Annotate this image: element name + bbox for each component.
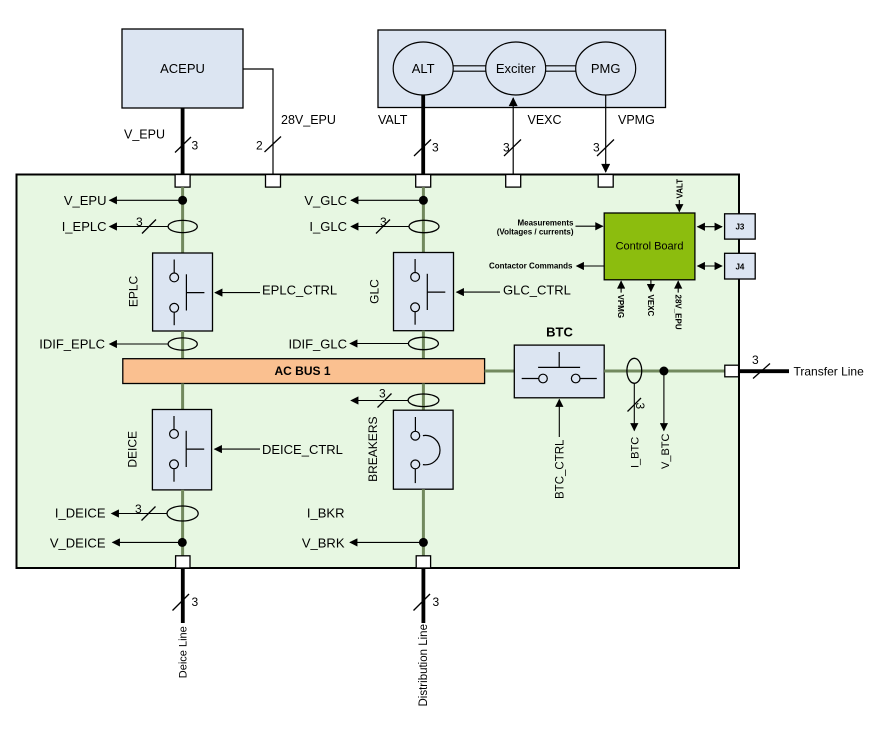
connector square Distribution Line (bottom border) — [416, 556, 430, 568]
svg-text:Distribution Line: Distribution Line — [418, 624, 430, 706]
svg-text:V_BRK: V_BRK — [302, 535, 345, 550]
node dot V_BRK — [419, 538, 428, 547]
arrow IDIF_GLC measurement — [350, 343, 409, 345]
current transformer on breaker line — [408, 394, 439, 407]
arrow BTC_CTRL command — [558, 400, 560, 438]
svg-text:(Voltages / currents): (Voltages / currents) — [497, 228, 574, 237]
wire VPMG with arrow down to panel — [605, 95, 607, 172]
svg-text:BTC: BTC — [546, 324, 573, 339]
svg-text:J3: J3 — [735, 223, 744, 232]
current transformer IDIF_GLC — [408, 337, 438, 349]
node dot V_GLC — [419, 196, 428, 205]
arrow I_BKR measurement with 3-phase slash — [351, 387, 408, 408]
connector J4 — [725, 253, 756, 279]
wire GLC to bus — [422, 331, 425, 359]
slash 3-phase on VALT feeder — [414, 140, 439, 157]
connector square Transfer Line (right border) — [725, 365, 739, 377]
svg-text:I_EPLC: I_EPLC — [62, 219, 107, 234]
wire V_EPU feeder (thick) — [181, 108, 185, 175]
svg-text:VPMG: VPMG — [616, 295, 625, 319]
svg-text:BTC_CTRL: BTC_CTRL — [555, 439, 567, 499]
contactor DEICE — [152, 410, 211, 490]
svg-text:BREAKERS: BREAKERS — [366, 417, 380, 482]
connector square Deice Line (bottom border) — [176, 556, 190, 568]
svg-text:28V_EPU: 28V_EPU — [281, 113, 336, 127]
shaft coupling Exciter-PMG (double line) — [546, 66, 576, 71]
node dot V_BTC — [659, 367, 668, 376]
svg-text:V_DEICE: V_DEICE — [50, 535, 106, 550]
label Measurements (Voltages / currents) — [497, 218, 574, 236]
svg-text:28V_EPU: 28V_EPU — [673, 295, 682, 330]
svg-text:VPMG: VPMG — [618, 113, 655, 127]
svg-text:GLC_CTRL: GLC_CTRL — [503, 283, 571, 298]
svg-text:Control Board: Control Board — [616, 241, 684, 253]
svg-text:ALT: ALT — [412, 61, 435, 76]
svg-text:EPLC_CTRL: EPLC_CTRL — [262, 283, 337, 298]
wire Distribution Line feeder (thick) with 3-phase slash — [414, 568, 440, 623]
arrow I_GLC measurement with 3-phase slash — [351, 215, 409, 234]
current transformer I_EPLC — [168, 220, 197, 232]
svg-text:3: 3 — [752, 353, 759, 367]
current transformer I_BTC (vertical) — [627, 358, 642, 383]
svg-text:J4: J4 — [735, 263, 744, 272]
arrow V_BRK measurement — [350, 541, 423, 543]
arrow Control Board to J3 (double headed) — [698, 226, 723, 228]
arrow V_GLC measurement — [351, 199, 423, 201]
connector square VALT (top border) — [416, 175, 431, 188]
svg-text:VEXC: VEXC — [528, 113, 562, 127]
node dot V_DEICE — [178, 538, 187, 547]
wire BREAKERS column from bus — [422, 384, 425, 411]
arrow I_DEICE measurement with 3-phase slash — [112, 502, 168, 521]
wire EPLC column upper segment — [181, 187, 184, 253]
machine Exciter — [486, 42, 546, 95]
arrow VEXC out of control board bottom — [650, 280, 652, 291]
slash 3-phase on V_EPU feeder — [175, 137, 199, 153]
contactor EPLC — [153, 253, 213, 331]
connector square VEXC (top border) — [506, 175, 521, 188]
svg-text:VEXC: VEXC — [646, 295, 655, 317]
svg-text:Measurements: Measurements — [517, 218, 574, 227]
block ACEPU — [122, 29, 243, 108]
block Control Board — [604, 213, 695, 280]
slash 2-phase on 28V_EPU wire — [256, 137, 281, 153]
svg-text:ACEPU: ACEPU — [160, 61, 205, 76]
wire DEICE column from bus — [181, 384, 184, 410]
connector J3 — [725, 214, 756, 239]
wire 28V_EPU from ACEPU to panel — [243, 69, 273, 175]
machine ALT — [393, 42, 453, 95]
arrow V_DEICE measurement — [113, 541, 183, 543]
wire BTC to transfer connector — [604, 370, 725, 373]
wire Transfer Line feeder (thick) with 3-phase slash — [740, 353, 790, 379]
wire VEXC with arrow up into Exciter — [512, 98, 514, 175]
current transformer I_DEICE — [167, 506, 198, 521]
wire EPLC to bus — [181, 331, 184, 359]
svg-text:3: 3 — [192, 139, 199, 153]
svg-text:I_GLC: I_GLC — [309, 219, 347, 234]
svg-text:3: 3 — [192, 595, 199, 609]
arrow I_BTC measurement with 3-phase slash — [628, 383, 648, 430]
bus bar AC BUS 1 — [123, 359, 485, 384]
arrow Measurements into control board — [576, 225, 603, 227]
svg-text:3: 3 — [379, 387, 386, 401]
arrow EPLC_CTRL command — [215, 292, 260, 294]
svg-text:DEICE_CTRL: DEICE_CTRL — [262, 442, 343, 457]
svg-text:3: 3 — [432, 141, 439, 155]
wire BREAKERS lower segment — [422, 489, 425, 556]
current transformer IDIF_EPLC — [168, 338, 197, 350]
svg-text:IDIF_GLC: IDIF_GLC — [288, 336, 347, 351]
svg-text:3: 3 — [433, 595, 440, 609]
arrow DEICE_CTRL command — [215, 448, 261, 450]
arrow V_BTC measurement — [663, 371, 665, 431]
svg-text:3: 3 — [633, 403, 647, 410]
svg-text:3: 3 — [136, 215, 143, 229]
panel main green enclosure — [17, 175, 740, 569]
node dot V_EPU — [178, 196, 187, 205]
svg-text:VALT: VALT — [378, 113, 408, 127]
svg-text:V_BTC: V_BTC — [660, 433, 672, 469]
svg-text:Contactor Commands: Contactor Commands — [489, 262, 573, 271]
slash 3-phase on VEXC wire — [503, 140, 521, 157]
arrow Contactor Commands out of control board — [577, 265, 605, 267]
machine PMG — [576, 42, 636, 95]
svg-text:3: 3 — [135, 502, 142, 516]
wire GLC column upper segment — [422, 187, 425, 252]
svg-text:AC BUS 1: AC BUS 1 — [274, 364, 330, 378]
shaft coupling ALT-Exciter (double line) — [453, 66, 486, 71]
wire VALT feeder (thick) — [421, 95, 425, 175]
block generator set (ALT/Exciter/PMG) — [378, 30, 666, 108]
wire DEICE lower segment — [181, 490, 184, 556]
svg-text:V_GLC: V_GLC — [304, 193, 347, 208]
arrow V_EPU measurement — [110, 199, 183, 201]
svg-text:Deice Line: Deice Line — [178, 626, 190, 678]
svg-text:Exciter: Exciter — [496, 61, 536, 76]
current transformer I_GLC — [409, 220, 439, 232]
svg-text:V_EPU: V_EPU — [124, 128, 165, 142]
connector square VPMG (top border) — [598, 175, 613, 188]
svg-text:I_BKR: I_BKR — [307, 506, 345, 521]
connector square V_EPU (top border) — [175, 175, 190, 188]
arrow Control Board to J4 (double headed) — [698, 265, 723, 267]
contactor GLC — [394, 253, 454, 331]
arrow I_EPLC measurement with 3-phase slash — [110, 215, 169, 234]
svg-text:IDIF_EPLC: IDIF_EPLC — [39, 336, 105, 351]
svg-text:Transfer Line: Transfer Line — [794, 365, 865, 379]
svg-text:I_DEICE: I_DEICE — [55, 506, 106, 521]
svg-text:PMG: PMG — [591, 61, 621, 76]
svg-text:I_BTC: I_BTC — [629, 437, 641, 468]
arrow GLC_CTRL command — [457, 291, 501, 293]
connector square 28V_EPU (top border) — [266, 175, 281, 188]
svg-text:2: 2 — [256, 139, 263, 153]
wire Deice Line feeder (thick) with 3-phase slash — [173, 568, 199, 623]
arrow IDIF_EPLC measurement — [110, 343, 169, 345]
svg-text:EPLC: EPLC — [127, 275, 141, 307]
breaker BREAKERS — [393, 410, 453, 489]
svg-text:3: 3 — [503, 141, 510, 155]
arrow 28V_EPU into control board bottom — [677, 281, 679, 292]
arrow VALT into control board — [678, 200, 680, 212]
svg-text:V_EPU: V_EPU — [64, 193, 107, 208]
arrow VPMG into control board bottom — [620, 281, 622, 292]
wire bus to BTC — [485, 370, 515, 373]
svg-text:3: 3 — [593, 141, 600, 155]
svg-text:DEICE: DEICE — [126, 431, 140, 468]
contactor BTC — [514, 345, 604, 398]
svg-text:VALT: VALT — [675, 179, 684, 199]
slash 3-phase on VPMG wire — [593, 140, 614, 157]
svg-text:3: 3 — [380, 215, 387, 229]
svg-text:GLC: GLC — [368, 279, 382, 304]
